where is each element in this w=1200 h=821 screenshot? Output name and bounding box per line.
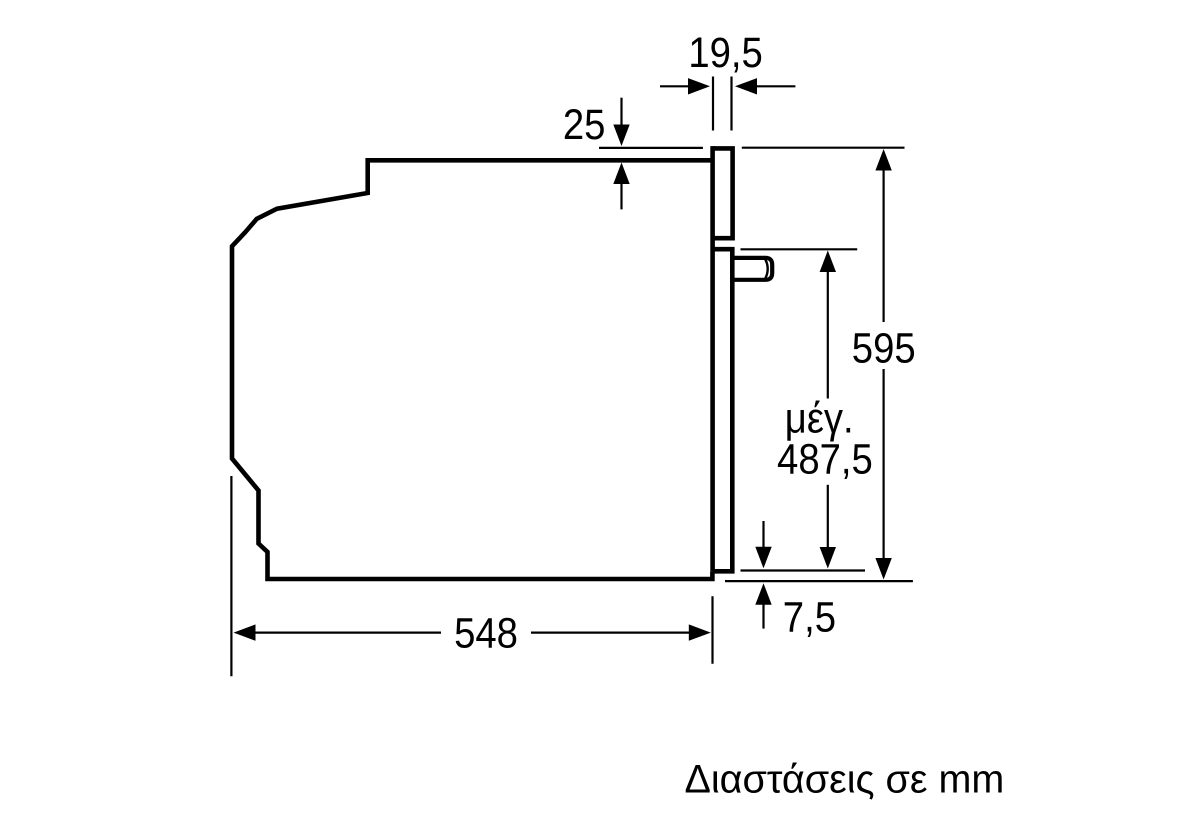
svg-text:19,5: 19,5 (688, 28, 762, 77)
svg-text:7,5: 7,5 (783, 592, 836, 641)
svg-text:548: 548 (454, 609, 518, 658)
svg-text:25: 25 (563, 100, 606, 149)
svg-text:Διαστάσεις σε mm: Διαστάσεις σε mm (685, 758, 1005, 802)
svg-text:595: 595 (852, 324, 916, 373)
svg-text:487,5: 487,5 (777, 434, 873, 483)
